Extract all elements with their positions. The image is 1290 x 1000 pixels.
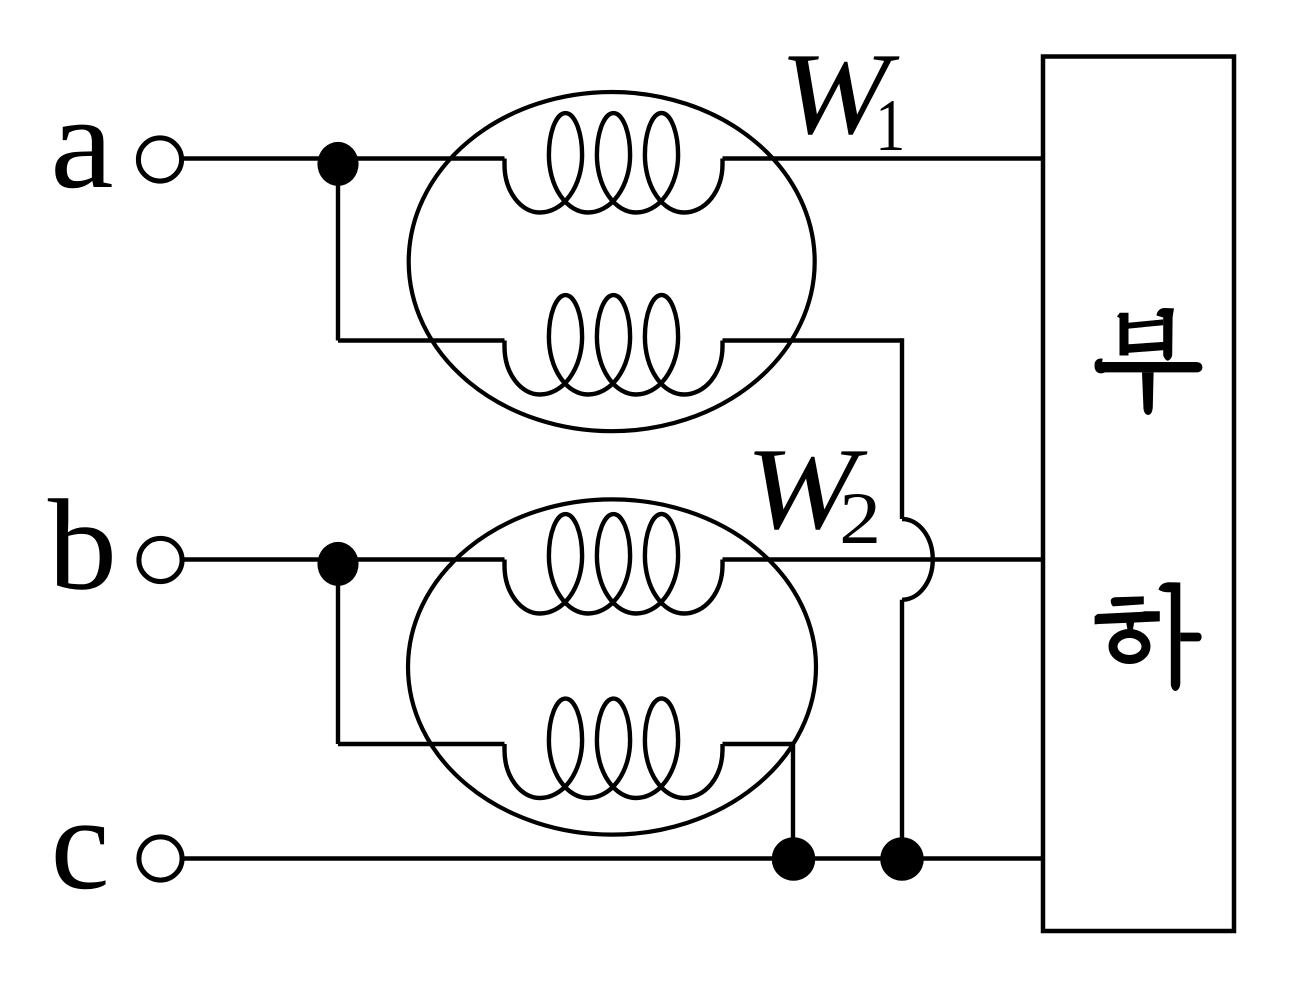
wire W1 voltage-coil exit horizontal [723, 338, 903, 342]
wire W1 current-coil exit to load [723, 156, 1044, 160]
junction node a [317, 142, 358, 186]
svg-text:1: 1 [875, 85, 905, 167]
junction node c-902 [880, 837, 924, 881]
wire W2 voltage-coil exit horizontal [723, 742, 794, 746]
wire vertical x=793 [791, 742, 795, 859]
wire a junction vertical [336, 159, 340, 341]
hangul 하 (load) [1095, 582, 1202, 691]
wire vertical x=902 lower segment [900, 600, 904, 859]
coil W2 current (top) [505, 514, 723, 614]
svg-text:2: 2 [839, 478, 881, 560]
junction node c-793 [772, 837, 816, 881]
wire W1 voltage-coil entry horizontal [338, 338, 505, 342]
wattmeter W1 ellipse [409, 92, 815, 431]
wire W2 current-coil exit to load [723, 557, 1044, 561]
wire b horizontal from terminal to coil entry [182, 557, 505, 561]
terminal b [139, 538, 182, 581]
wire c horizontal to load [182, 856, 1043, 860]
terminal c [139, 837, 182, 880]
wire vertical x=902 upper segment [900, 338, 904, 519]
svg-text:b: b [48, 474, 117, 618]
junction node b [317, 542, 358, 586]
hangul 부 (load) [1095, 308, 1203, 415]
wire a horizontal from terminal to coil entry [182, 156, 505, 160]
wattmeter W2 ellipse [408, 499, 816, 834]
wire W2 voltage-coil entry horizontal [338, 742, 505, 746]
svg-text:a: a [50, 68, 113, 216]
wire b junction vertical [336, 560, 340, 745]
coil W1 current (top) [505, 113, 723, 213]
coil W1 voltage (bottom) [505, 295, 723, 395]
coil W2 voltage (bottom) [505, 699, 723, 799]
load box [1043, 57, 1234, 932]
svg-text:c: c [51, 769, 110, 917]
wire hop over W2 wire [902, 519, 933, 600]
terminal a [138, 138, 181, 181]
